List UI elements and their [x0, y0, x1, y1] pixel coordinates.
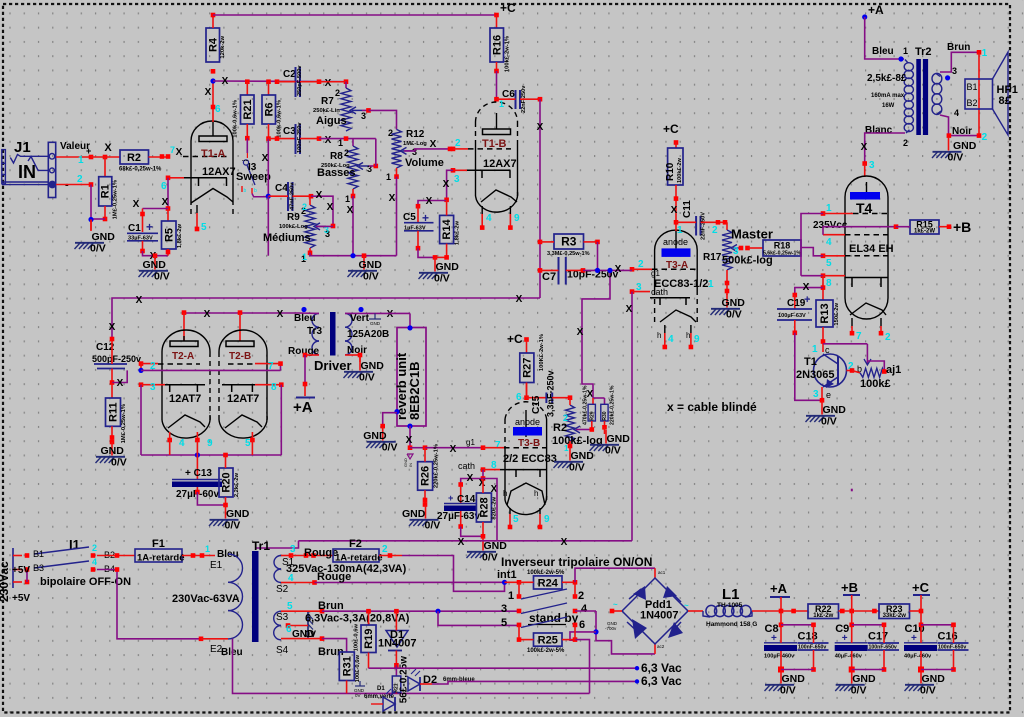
svg-text:GND: GND [361, 360, 385, 372]
potentiometer R8 [317, 146, 372, 204]
svg-text:X: X [467, 473, 474, 484]
resistor R26 [418, 444, 440, 490]
wire Tr2 secondary bottom [940, 115, 979, 136]
svg-text:C11: C11 [682, 200, 693, 218]
resistor R15 [910, 220, 939, 235]
svg-text:X: X [222, 76, 229, 87]
capacitor C17 [868, 631, 899, 651]
svg-text:68k£-0,25w-1%: 68k£-0,25w-1% [119, 167, 162, 173]
resistor R31 [339, 652, 361, 682]
svg-text:X: X [458, 537, 465, 548]
svg-text:6mm,verte: 6mm,verte [364, 694, 395, 700]
wire jack to R2 [56, 156, 91, 158]
wire R22 right [839, 610, 880, 612]
wire jack sleeve [56, 184, 91, 186]
power +C rail [912, 580, 930, 611]
resistor R19 [354, 624, 377, 653]
wire C9 bottom link [852, 669, 884, 671]
svg-text:TH-1005: TH-1005 [717, 602, 743, 609]
svg-text:S3: S3 [276, 612, 289, 623]
svg-text:7: 7 [268, 361, 274, 372]
svg-text:T1-B: T1-B [482, 138, 507, 150]
svg-text:100£-0,6w: 100£-0,6w [354, 624, 360, 652]
wire R9 bottom [309, 248, 311, 253]
wire C4 down from dot [267, 196, 269, 256]
capacitor C8 [764, 623, 797, 660]
wire R20 bottom [225, 497, 227, 505]
svg-text:6: 6 [161, 181, 167, 192]
svg-text:L1: L1 [722, 586, 740, 603]
svg-text:3: 3 [454, 174, 460, 185]
wire R4 up [212, 15, 214, 28]
svg-text:C1: C1 [128, 223, 141, 234]
wire C7 right [566, 269, 583, 271]
svg-text:0V: 0V [355, 693, 361, 698]
ground GND R17 [711, 294, 746, 321]
svg-text:3: 3 [501, 603, 507, 615]
svg-text:GND: GND [370, 321, 381, 326]
wire T4 g1 pin1 [821, 211, 826, 216]
svg-text:e: e [826, 390, 831, 400]
svg-text:+5V: +5V [12, 593, 30, 604]
resistor R10 [665, 148, 683, 185]
svg-text:X: X [615, 264, 622, 275]
wire switch5 feed [435, 609, 440, 614]
svg-text:1: 1 [302, 252, 307, 262]
wire D1 down [395, 651, 397, 666]
resistor R24 [534, 576, 563, 590]
svg-text:1: 1 [708, 279, 714, 290]
wire R2 bottom [569, 441, 571, 447]
svg-text:C17: C17 [868, 631, 888, 643]
wire T3-A cath row [630, 289, 635, 294]
svg-text:GND: GND [722, 297, 746, 309]
svg-text:3: 3 [150, 382, 156, 393]
wire C11 left [676, 221, 696, 223]
wire T3B cath right loop [483, 479, 497, 541]
svg-text:100k£: 100k£ [860, 378, 891, 390]
svg-text:12AX7: 12AX7 [202, 166, 236, 178]
ground GND C1 R5 [139, 256, 170, 283]
wire T1-A plate up [212, 81, 214, 122]
svg-text:C7: C7 [542, 271, 556, 283]
svg-text:2,5k£-8£: 2,5k£-8£ [867, 73, 907, 84]
svg-text:X: X [671, 205, 678, 216]
wire heater return long [233, 639, 590, 694]
svg-text:27µF-63v: 27µF-63v [437, 511, 480, 522]
wire L1 to +A [752, 610, 781, 612]
svg-text:C15: C15 [531, 395, 542, 414]
svg-text:GND: GND [571, 450, 595, 462]
wire to R7 [345, 82, 347, 88]
svg-text:R7: R7 [321, 96, 334, 107]
wire C10 bottom link [921, 669, 954, 671]
wire R8 top [352, 139, 354, 146]
stray dot [851, 489, 853, 492]
wire R26 top [424, 448, 426, 462]
wire +C top rail [213, 14, 497, 16]
svg-text:1A-retardé: 1A-retardé [137, 553, 185, 564]
ground GND J1 [75, 231, 116, 255]
svg-text:160mA max: 160mA max [871, 93, 905, 99]
svg-text:0/V: 0/V [382, 442, 398, 454]
resistor R28 [476, 493, 497, 522]
svg-text:9: 9 [694, 334, 700, 345]
svg-text:120k-2w: 120k-2w [220, 36, 226, 59]
svg-text:X: X [327, 202, 334, 213]
svg-text:1N4007: 1N4007 [640, 610, 679, 622]
wire C6 right [520, 98, 540, 100]
svg-text:0/V: 0/V [225, 520, 241, 532]
resistor R29 [583, 385, 596, 425]
svg-text:Brun: Brun [318, 600, 344, 612]
svg-text:X: X [479, 478, 486, 489]
svg-text:X: X [626, 304, 633, 315]
svg-text:anode: anode [663, 237, 688, 247]
ground GND C10 [905, 670, 946, 697]
svg-text:S4: S4 [276, 645, 289, 656]
capacitor C13 [172, 468, 222, 500]
wire sweep to C4 [263, 196, 268, 198]
svg-text:1: 1 [338, 138, 343, 148]
wire R28 bottom [482, 522, 484, 536]
label 6,3 Vac b [635, 679, 639, 683]
svg-text:9: 9 [514, 213, 520, 224]
svg-text:X: X [450, 444, 457, 455]
svg-text:1: 1 [386, 172, 391, 182]
svg-text:anode: anode [515, 417, 540, 427]
svg-text:2/2 ECC83: 2/2 ECC83 [503, 453, 557, 465]
svg-text:X: X [430, 139, 437, 150]
svg-text:T3-A: T3-A [666, 260, 688, 271]
svg-text:3: 3 [952, 66, 957, 76]
svg-text:+C: +C [500, 1, 516, 15]
svg-text:4: 4 [179, 438, 185, 449]
svg-text:X: X [443, 179, 450, 190]
svg-text:Tr3: Tr3 [307, 326, 322, 337]
svg-text:T4: T4 [856, 200, 873, 216]
svg-text:3: 3 [636, 282, 642, 293]
svg-text:GND: GND [607, 433, 631, 445]
svg-text:1A-retardé: 1A-retardé [335, 553, 383, 564]
svg-text:7: 7 [495, 440, 501, 451]
svg-text:GND: GND [92, 231, 116, 243]
svg-text:100k£-Log: 100k£-Log [279, 224, 308, 230]
anode bar T3-B [513, 427, 542, 436]
led D1 [371, 689, 395, 711]
svg-text:0/V: 0/V [434, 273, 450, 285]
svg-text:5: 5 [513, 514, 519, 525]
svg-text:X: X [176, 147, 183, 158]
ground GND reverb left [363, 427, 397, 454]
wire R28 top [482, 479, 484, 494]
capacitor C16 [938, 631, 969, 651]
svg-text:R27: R27 [521, 358, 533, 378]
svg-text:R25: R25 [538, 635, 558, 647]
wire S1 Rouge F2 [281, 555, 291, 557]
svg-text:R13: R13 [819, 303, 831, 323]
resistor R30 [601, 385, 616, 425]
wire R12 wiper to T1-B [404, 149, 450, 151]
svg-text:100K£-2w-1%: 100K£-2w-1% [539, 334, 545, 371]
svg-text:1N4007: 1N4007 [378, 638, 417, 650]
wire R31 top [322, 639, 347, 652]
svg-text:12AT7: 12AT7 [227, 393, 259, 405]
ground GND R2 [554, 447, 595, 474]
svg-text:100k-0,6w-1%: 100k-0,6w-1% [233, 100, 239, 138]
svg-text:R9: R9 [287, 212, 300, 223]
svg-text:R28: R28 [478, 497, 490, 517]
wire C19 bottom [794, 320, 796, 333]
bridge Pdd1 [622, 578, 688, 644]
wire R21b bottom [395, 692, 397, 695]
wire R5 bottom [167, 249, 169, 256]
resistor R6 [262, 95, 283, 138]
wire R14 bottom [446, 244, 448, 258]
svg-text:220k£-0,25w-1%: 220k£-0,25w-1% [610, 385, 616, 425]
svg-text:4: 4 [826, 237, 832, 248]
svg-text:9: 9 [207, 438, 213, 449]
svg-text:T1: T1 [804, 356, 817, 368]
svg-text:1: 1 [826, 203, 832, 214]
svg-text:~: ~ [613, 600, 618, 609]
svg-text:X: X [577, 327, 584, 338]
svg-text:5: 5 [201, 222, 207, 233]
wire C8 bottom link [781, 669, 814, 671]
wire R17 wiper [733, 247, 741, 249]
svg-text:500pF-250v: 500pF-250v [92, 354, 141, 364]
svg-text:IN: IN [18, 162, 36, 182]
svg-text:-700v: -700v [605, 626, 617, 631]
svg-text:GND: GND [484, 540, 508, 552]
wire C18 col [813, 625, 815, 643]
svg-text:GND: GND [226, 508, 250, 520]
wire C9-C17 top link [852, 624, 884, 626]
svg-text:T2-B: T2-B [229, 351, 251, 362]
wire R25 left [519, 639, 534, 641]
wire to T4 plate [864, 164, 866, 178]
wire pole5 down [518, 625, 520, 640]
svg-text:1,8k£-2w: 1,8k£-2w [177, 224, 183, 249]
svg-text:100£-0,6w: 100£-0,6w [355, 655, 361, 683]
svg-text:5: 5 [245, 438, 251, 449]
ground GND T1 [806, 401, 847, 428]
svg-text:R31: R31 [341, 656, 353, 676]
svg-text:2: 2 [712, 225, 718, 236]
svg-text:R1: R1 [100, 184, 112, 198]
svg-text:GND: GND [143, 259, 167, 271]
svg-text:X: X [104, 142, 112, 154]
svg-text:R21: R21 [242, 99, 254, 119]
triode T1-B [467, 102, 518, 230]
wire C14 bottom [460, 511, 462, 527]
inductor L1 [703, 605, 752, 617]
wire R27 bottom [526, 383, 528, 398]
svg-text:h: h [657, 331, 661, 340]
svg-text:5,6k£-0,25w-1%: 5,6k£-0,25w-1% [763, 251, 801, 257]
wire reverb out row [410, 447, 425, 449]
wire T4 cath pin8 [821, 273, 826, 278]
wire C3 row [269, 138, 296, 140]
wire R2 to T1-A grid [149, 156, 169, 158]
svg-text:Aigus: Aigus [316, 115, 347, 127]
wire reverb left gnd [394, 409, 399, 414]
svg-text:3: 3 [733, 246, 739, 257]
wire C12 bottom [111, 341, 113, 364]
svg-text:GND: GND [922, 673, 946, 685]
transformer Tr1 secondary HT [274, 556, 281, 583]
svg-text:Rouge: Rouge [317, 571, 351, 583]
wire plate row y81 [213, 80, 346, 83]
svg-text:E1: E1 [210, 560, 223, 571]
svg-text:R20: R20 [221, 472, 233, 492]
resistor R22 [808, 604, 839, 619]
wire R24 right [562, 581, 576, 583]
wire Tr2 secondary top [940, 52, 979, 72]
wire B2 to F1 [97, 555, 135, 557]
svg-text:2: 2 [92, 543, 97, 553]
svg-text:ac1: ac1 [658, 570, 666, 575]
svg-text:C19: C19 [787, 298, 806, 309]
svg-text:Sweep: Sweep [236, 171, 271, 183]
capacitor C2 [283, 65, 303, 97]
svg-text:0/V: 0/V [920, 685, 936, 697]
wire gnd stub [90, 220, 92, 232]
svg-text:Hammond 158 G: Hammond 158 G [706, 621, 757, 628]
wire reverb bottom [407, 424, 412, 429]
svg-text:R12: R12 [406, 129, 425, 140]
wire C4 right [293, 195, 312, 197]
svg-text:X: X [561, 537, 568, 548]
svg-text:4: 4 [581, 603, 588, 615]
svg-text:X: X [406, 435, 413, 446]
triode T3-B [500, 402, 547, 530]
svg-text:6: 6 [516, 392, 522, 403]
label 6,3 Vac a [635, 666, 639, 670]
svg-text:B1: B1 [967, 82, 978, 92]
svg-text:+B: +B [841, 580, 858, 595]
wire T2 grid row [139, 361, 144, 366]
svg-text:Inverseur tripolaire ON/ON: Inverseur tripolaire ON/ON [501, 555, 652, 569]
svg-text:230Vac: 230Vac [0, 561, 11, 602]
svg-text:4: 4 [92, 557, 97, 567]
wire T2-B plate stub [239, 313, 241, 341]
svg-text:2: 2 [982, 132, 988, 143]
svg-text:100nF-250v: 100nF-250v [297, 122, 303, 153]
wire C6 left [497, 98, 516, 100]
fuse F1 [135, 538, 185, 564]
svg-text:X: X [205, 87, 212, 98]
wire R30 bottom [604, 421, 606, 427]
svg-text:+A: +A [293, 399, 313, 416]
wire 63vac row1 [369, 667, 638, 669]
wire int1 node [502, 580, 507, 585]
svg-text:X: X [117, 378, 124, 389]
svg-text:b: b [244, 188, 247, 194]
svg-text:0/V: 0/V [851, 685, 867, 697]
speaker HP1 [965, 52, 1008, 135]
svg-text:2: 2 [388, 128, 393, 138]
wire R16 down [496, 62, 498, 71]
svg-text:6,3Vac-3,3A(20,8VA): 6,3Vac-3,3A(20,8VA) [305, 613, 410, 625]
svg-text:b: b [254, 188, 257, 194]
svg-text:+C: +C [507, 332, 523, 346]
potentiometer R7 [313, 88, 366, 131]
ground GND R28 [467, 537, 508, 564]
svg-text:Driver: Driver [314, 358, 352, 373]
wire R14 top [446, 200, 448, 216]
svg-text:5: 5 [287, 601, 293, 612]
transformer Tr3 [312, 312, 352, 356]
svg-text:X: X [277, 309, 284, 320]
svg-text:X: X [325, 135, 332, 146]
wire R7 wiper [362, 109, 369, 111]
wire R15 left [896, 226, 910, 228]
wire T1 emitter gnd [821, 387, 823, 400]
wire R10 top [675, 143, 677, 149]
power +A rail [770, 581, 790, 611]
wire R9 top stub [309, 196, 311, 205]
pentode T4 [845, 176, 888, 335]
svg-text:+: + [86, 146, 91, 156]
wire T3 cath loop bottom [497, 540, 632, 542]
svg-text:8£: 8£ [999, 95, 1011, 107]
svg-text:2: 2 [885, 332, 891, 343]
wire R13 bottom [822, 327, 824, 352]
wire C16 col [953, 625, 955, 643]
svg-text:IN: IN [408, 463, 413, 467]
wire S4 Brun row [281, 638, 322, 640]
svg-text:C3: C3 [283, 126, 296, 137]
wire R11 top [111, 383, 113, 399]
resistor R2 [119, 150, 162, 173]
svg-text:R30: R30 [602, 411, 608, 420]
svg-text:x = cable blindé: x = cable blindé [667, 400, 757, 414]
svg-text:X: X [133, 199, 140, 210]
ground mini Tr3 [369, 313, 381, 326]
svg-text:235Vcc: 235Vcc [813, 220, 848, 231]
mini gnd D1 led [354, 681, 365, 698]
svg-text:R3: R3 [561, 235, 577, 249]
wire R11 bottom [111, 426, 113, 441]
wire S2 Rouge to int1 [281, 582, 291, 584]
svg-text:Brun: Brun [947, 42, 970, 53]
capacitor C7 [542, 257, 619, 285]
svg-text:X: X [537, 122, 544, 133]
wire R24 to bridge top [575, 568, 655, 582]
svg-text:0/V: 0/V [948, 152, 964, 164]
wire R26 bottom [424, 490, 426, 504]
svg-text:R17: R17 [703, 252, 722, 263]
svg-text:1: 1 [499, 99, 504, 109]
wire Tr3 primary top [298, 312, 319, 314]
switch I1 [13, 537, 115, 588]
svg-text:Tr2: Tr2 [915, 46, 932, 58]
ground GND C9 [835, 670, 876, 697]
wire R12 bottom [396, 168, 398, 177]
svg-text:0/V: 0/V [482, 552, 498, 564]
svg-text:X: X [389, 193, 396, 204]
svg-text:GND: GND [101, 445, 125, 457]
svg-text:GND: GND [359, 259, 383, 271]
anode bar T3-A [662, 248, 691, 257]
wire Tr3 secondary top [345, 312, 361, 314]
svg-text:2,2k£-2w: 2,2k£-2w [234, 473, 240, 498]
svg-text:6,3 Vac: 6,3 Vac [641, 661, 682, 675]
svg-text:Bleu: Bleu [217, 549, 239, 560]
wire cathode bottom loop [141, 454, 281, 456]
wire T4 g2 pin4 [823, 234, 845, 236]
